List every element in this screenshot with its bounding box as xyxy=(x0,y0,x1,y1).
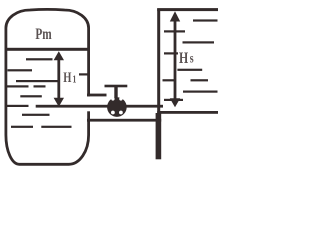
svg-text:H: H xyxy=(63,68,71,85)
svg-text:1: 1 xyxy=(72,74,76,86)
svg-text:Pm: Pm xyxy=(35,25,52,42)
svg-text:H: H xyxy=(179,49,188,67)
svg-text:s: s xyxy=(190,50,194,66)
